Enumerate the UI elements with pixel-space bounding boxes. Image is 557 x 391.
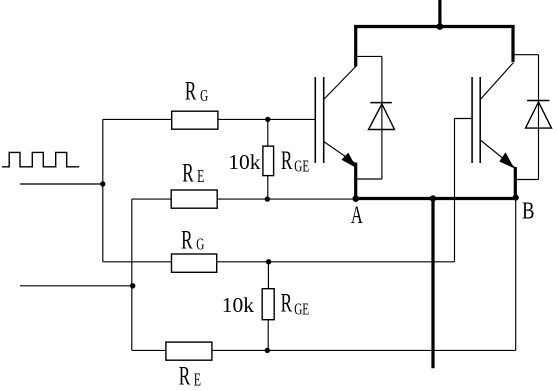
- transistor Q1 emitter lead: [324, 142, 355, 164]
- diode D1 triangle: [369, 104, 395, 130]
- svg-text:E: E: [194, 370, 201, 390]
- wire: D2 top connection: [513, 54, 539, 56]
- wire: RG1 left lead: [103, 118, 172, 120]
- wire: RE2 left lead: [132, 349, 166, 351]
- resistor RE1 body: [171, 190, 217, 208]
- diode D2 cathode lead: [538, 55, 540, 180]
- wire: Q1 collector drop (thick): [354, 25, 357, 67]
- wire: RE1 left lead: [132, 198, 171, 200]
- diode D2 triangle: [526, 102, 552, 128]
- transistor Q2 emitter arrowhead: [499, 152, 514, 168]
- resistor RGE1 name label: [281, 145, 310, 176]
- svg-text:R: R: [181, 225, 193, 255]
- wire: RG2 left lead: [103, 261, 172, 263]
- svg-text:10k: 10k: [222, 293, 255, 317]
- wire: Q2 collector drop (thick): [511, 25, 514, 62]
- resistor RG2 label: [181, 225, 204, 255]
- square wave source symbol: [2, 152, 79, 166]
- wire: RGE1 bottom lead: [267, 176, 269, 200]
- svg-text:G: G: [200, 87, 208, 106]
- wire: Q2 gate horizontal: [455, 118, 473, 120]
- wire: RGE2 bottom lead: [267, 320, 269, 351]
- resistor RG2 body: [172, 254, 217, 272]
- wire: RE1 to node A: [217, 198, 356, 200]
- wire: emitter bus vertical: [131, 199, 133, 350]
- wire: RG1 to Q1 gate: [218, 118, 315, 120]
- node B junction dot: [513, 195, 519, 201]
- junction dot: RG1/RGE1 node: [265, 117, 270, 122]
- wire: RGE1 top lead: [267, 119, 269, 146]
- wire: D2 bottom connection: [515, 179, 538, 181]
- wire: Q1 emitter to node A (thick): [354, 163, 357, 199]
- svg-text:A: A: [351, 201, 363, 229]
- wire: node B riser: [515, 198, 517, 351]
- resistor RE2 label: [179, 361, 201, 391]
- wire: RGE2 top lead: [267, 262, 269, 289]
- svg-text:GE: GE: [294, 301, 309, 320]
- wire: center output stub (thick): [431, 199, 434, 369]
- svg-text:R: R: [182, 158, 194, 188]
- wire: positive supply stub (thick): [438, 0, 441, 27]
- resistor RE1 label: [182, 158, 204, 188]
- resistor RG1 body: [172, 111, 218, 129]
- resistor RGE1 body (10k): [263, 146, 274, 176]
- svg-text:G: G: [196, 235, 204, 254]
- wire: drive input upper: [20, 183, 103, 185]
- wire: top collector rail (thick): [354, 25, 514, 28]
- svg-text:R: R: [185, 76, 197, 106]
- wire: Q2 gate riser vertical: [454, 119, 456, 262]
- resistor RE2 body: [166, 342, 212, 360]
- wire: gate bus vertical: [102, 119, 104, 261]
- transistor Q1 emitter arrowhead: [342, 153, 357, 168]
- wire: D1 bottom connection: [356, 178, 382, 180]
- wire: Q2 emitter to node B (thick): [514, 167, 517, 199]
- wire: RE2 to node B run: [212, 349, 516, 351]
- node A junction dot: [353, 195, 360, 202]
- transistor Q2 (IGBT) gate bar: [471, 77, 473, 163]
- wire: RG2 to Q2 gate riser: [217, 261, 455, 263]
- diode D1 cathode bar: [370, 102, 392, 104]
- svg-text:R: R: [281, 145, 293, 175]
- junction dot: RE2/RGE2 node: [265, 348, 270, 353]
- transistor Q2 (IGBT) body bar: [479, 77, 481, 163]
- junction dot: RG2/RGE2 node: [266, 259, 271, 264]
- diode D1 cathode lead: [381, 56, 383, 179]
- junction dot: lower input to emitter bus: [130, 283, 135, 288]
- resistor RGE2 body (10k): [262, 289, 274, 320]
- resistor RG1 label: [185, 76, 208, 106]
- resistor RGE2 name label: [281, 288, 310, 319]
- svg-text:R: R: [179, 361, 191, 391]
- junction dot: RE1/RGE1 node: [265, 196, 270, 201]
- wire: D1 top connection: [356, 55, 382, 57]
- junction dot: supply to rail: [437, 23, 444, 30]
- svg-text:B: B: [522, 197, 534, 224]
- svg-text:E: E: [197, 167, 204, 187]
- wire: output rail A-B (thick): [356, 197, 516, 200]
- junction dot: center output: [430, 195, 436, 201]
- wire: return input lower: [20, 285, 133, 287]
- diode D2 cathode bar: [527, 100, 550, 102]
- svg-text:R: R: [281, 288, 293, 318]
- transistor Q1 (IGBT) gate bar: [314, 77, 316, 163]
- transistor Q1 (IGBT) body bar: [323, 77, 325, 163]
- junction dot: upper input to gate bus: [100, 181, 105, 186]
- transistor Q2 collector lead: [480, 63, 513, 100]
- svg-text:GE: GE: [294, 157, 309, 176]
- svg-text:10k: 10k: [228, 150, 260, 174]
- transistor Q1 collector lead: [324, 67, 356, 100]
- transistor Q2 emitter lead: [480, 140, 514, 168]
